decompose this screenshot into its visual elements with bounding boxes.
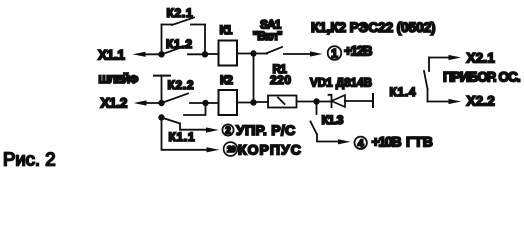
svg-text:VD1 Д814В: VD1 Д814В xyxy=(310,76,372,90)
wire to X2.2 arrow xyxy=(428,101,451,103)
svg-text:X2.2: X2.2 xyxy=(467,94,495,109)
wire R1 to node E xyxy=(297,101,317,103)
wire X1.2 arrow xyxy=(145,102,162,104)
wire K2 to node F xyxy=(237,102,253,104)
contact K2.2 xyxy=(163,94,188,103)
wire VD1 to end terminal xyxy=(345,100,373,102)
switch SA1 xyxy=(254,53,268,55)
svg-text:220: 220 xyxy=(270,73,292,87)
svg-text:1: 1 xyxy=(331,46,338,60)
node C2 junction xyxy=(202,100,208,106)
pin 4 circle xyxy=(355,137,367,149)
relay coil K2 xyxy=(219,90,238,115)
node C junction xyxy=(158,100,164,106)
svg-text:ГТВ: ГТВ xyxy=(406,134,433,150)
svg-text:К1: К1 xyxy=(220,23,233,37)
svg-text:К2.2: К2.2 xyxy=(168,78,195,92)
node E junction xyxy=(313,98,319,104)
svg-text:ПРИБОР. ОС.: ПРИБОР. ОС. xyxy=(443,69,520,84)
svg-text:К1.2: К1.2 xyxy=(166,37,193,51)
contact K1.1 xyxy=(163,118,180,124)
wire SA1 to pin 1 arrow xyxy=(284,53,311,55)
svg-text:X1.2: X1.2 xyxy=(101,96,128,111)
svg-text:К2.1: К2.1 xyxy=(167,6,194,20)
node A2 junction xyxy=(202,51,208,57)
node F junction xyxy=(250,99,256,105)
wire node C2 down to K1.1 fixed contact xyxy=(184,103,206,115)
pin 1 circle xyxy=(328,46,342,60)
end terminal bar xyxy=(372,94,374,107)
pin 2 circle xyxy=(222,124,233,135)
wire node B to node F vertical xyxy=(253,54,255,103)
svg-text:X1.1: X1.1 xyxy=(98,47,125,62)
wire K1.3 to pin 4 arrow xyxy=(317,135,339,142)
svg-text:2: 2 xyxy=(225,126,231,137)
svg-text:X2.1: X2.1 xyxy=(467,50,496,65)
node B junction xyxy=(250,50,256,56)
wire X1.1 arrow xyxy=(144,53,161,55)
contact K2.1 xyxy=(162,24,174,26)
contact K1.3 xyxy=(316,102,318,115)
svg-text:К1.4: К1.4 xyxy=(390,85,417,99)
svg-text:"Вкл": "Вкл" xyxy=(253,29,282,43)
svg-text:ШЛЕЙФ: ШЛЕЙФ xyxy=(99,73,139,86)
svg-text:Рис. 2: Рис. 2 xyxy=(3,149,56,170)
wire to X2.1 arrow xyxy=(429,57,450,59)
svg-text:+12В: +12В xyxy=(344,44,373,59)
wire riser right (K2.1 branch to node A2) xyxy=(204,25,206,55)
node D junction xyxy=(158,114,164,120)
node A junction xyxy=(158,51,164,57)
wire K1.1 to pin 2 arrow xyxy=(180,124,207,130)
contact K1.2 xyxy=(163,44,191,54)
svg-text:К1.3: К1.3 xyxy=(322,113,344,127)
svg-text:УПР. Р/С: УПР. Р/С xyxy=(236,122,296,138)
resistor R1 xyxy=(268,96,297,108)
svg-text:КОРПУС: КОРПУС xyxy=(238,142,302,158)
svg-text:К1,К2 РЭС22 (0502): К1,К2 РЭС22 (0502) xyxy=(311,20,435,35)
svg-text:К1.1: К1.1 xyxy=(169,130,196,144)
pin 10 circle xyxy=(224,142,238,156)
svg-text:4: 4 xyxy=(358,138,365,150)
svg-text:К2: К2 xyxy=(220,73,233,87)
svg-text:+10В: +10В xyxy=(372,134,402,150)
zener diode VD1 xyxy=(317,101,332,103)
wire stub with T-bar end above node C xyxy=(154,75,170,77)
wire K1 to node B xyxy=(237,53,253,55)
svg-text:10: 10 xyxy=(227,144,236,154)
relay coil K1 xyxy=(219,41,238,66)
wire riser left (node A to K2.1 branch) xyxy=(161,25,163,55)
contact K1.4 xyxy=(428,58,430,72)
wire node C2 to relay K2 xyxy=(206,102,219,104)
wire node D down to pin 10 arrow xyxy=(162,118,207,150)
wire node F to R1 xyxy=(254,101,269,103)
wire node A2 to relay K1 xyxy=(205,53,218,55)
